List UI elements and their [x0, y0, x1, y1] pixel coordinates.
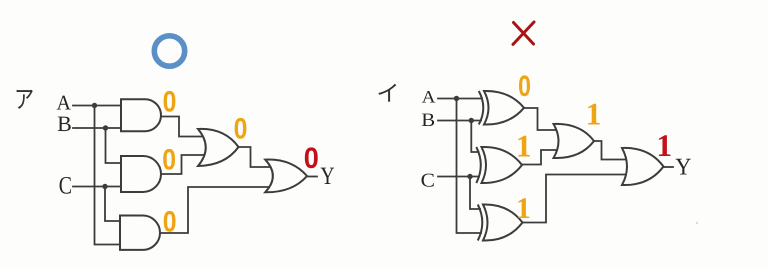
- wire XOR2 output to OR3 lower input: [521, 150, 562, 165]
- OR gate G4: [198, 129, 239, 166]
- wire OR1 output to OR2 upper input: [236, 147, 273, 167]
- wire AND2 output to OR1 lower input: [158, 155, 207, 174]
- OR gate G4 (middle, right): [554, 124, 595, 158]
- XOR gate G1 (inputs A,B) body: [484, 91, 524, 125]
- svg-text:1: 1: [516, 192, 531, 225]
- node B junction dot (right): [469, 118, 474, 123]
- wire AND3 output to OR2 lower input: [157, 187, 273, 233]
- svg-text:0: 0: [234, 113, 248, 146]
- node C junction dot: [102, 184, 107, 189]
- svg-text:A: A: [422, 87, 436, 107]
- svg-text:B: B: [57, 111, 72, 136]
- XOR gate G1 input arc: [479, 91, 484, 125]
- svg-text:0: 0: [518, 70, 531, 103]
- svg-text:イ: イ: [376, 81, 399, 106]
- svg-text:0: 0: [304, 142, 319, 175]
- wire node A branch vertical to XOR3 lower input: [457, 99, 482, 234]
- svg-text:1: 1: [516, 129, 532, 164]
- wire input B horizontal (right): [438, 120, 481, 122]
- svg-text:C: C: [421, 170, 435, 191]
- wire node C branch vertical to XOR3 upper input: [470, 177, 480, 210]
- wire input B horizontal: [73, 127, 121, 129]
- node A junction dot: [92, 103, 97, 108]
- svg-text:ア: ア: [14, 87, 34, 114]
- AND gate G3 (inputs C,A): [120, 216, 160, 250]
- svg-text:Y: Y: [675, 155, 691, 181]
- XOR gate G2 input arc: [476, 147, 481, 183]
- svg-text:0: 0: [163, 86, 177, 119]
- wire node B branch vertical to AND2 upper input: [106, 128, 122, 163]
- svg-text:1: 1: [586, 96, 602, 131]
- wire input A horizontal (right): [438, 98, 482, 100]
- wire node C branch vertical to AND3 upper input: [105, 187, 121, 222]
- XOR gate G3 (inputs C,A) body: [483, 204, 523, 240]
- svg-text:1: 1: [656, 128, 672, 163]
- svg-text:0: 0: [162, 144, 176, 177]
- node C junction dot (right): [467, 174, 472, 179]
- wire input C horizontal: [73, 186, 121, 188]
- svg-text:0: 0: [163, 206, 177, 239]
- AND gate G1 (inputs A,B): [121, 99, 161, 131]
- wire XOR3 output to OR4 lower input: [522, 175, 631, 223]
- XOR gate G3 input arc: [478, 205, 483, 241]
- OR gate G5 (output Y, right): [622, 148, 664, 185]
- wire AND1 output to OR1 upper input: [158, 117, 207, 137]
- scan speck artifact: [696, 222, 698, 224]
- node B junction dot: [103, 125, 108, 130]
- wire OR3 output to OR4 upper input: [592, 141, 630, 160]
- wire input C horizontal (right): [438, 176, 479, 178]
- wire node A branch vertical to AND3 lower input: [95, 106, 122, 245]
- wire OR4 output to Y (right): [663, 166, 674, 168]
- svg-text:B: B: [421, 110, 435, 131]
- correct mark: blue circle: [154, 36, 184, 66]
- wire OR2 output to Y: [306, 176, 317, 178]
- AND gate G2 (inputs B,C): [121, 156, 161, 192]
- wire node B branch vertical to XOR2 upper input: [471, 121, 478, 153]
- wire input A horizontal: [73, 105, 121, 107]
- svg-text:C: C: [59, 172, 72, 199]
- node A junction dot (right): [454, 96, 459, 101]
- OR gate G5 (output Y): [265, 160, 307, 193]
- svg-text:Y: Y: [320, 163, 334, 190]
- XOR gate G2 (inputs B,C) body: [482, 147, 523, 183]
- wire XOR1 output to OR3 upper input: [523, 108, 562, 130]
- wrong mark: red X: [513, 22, 534, 44]
